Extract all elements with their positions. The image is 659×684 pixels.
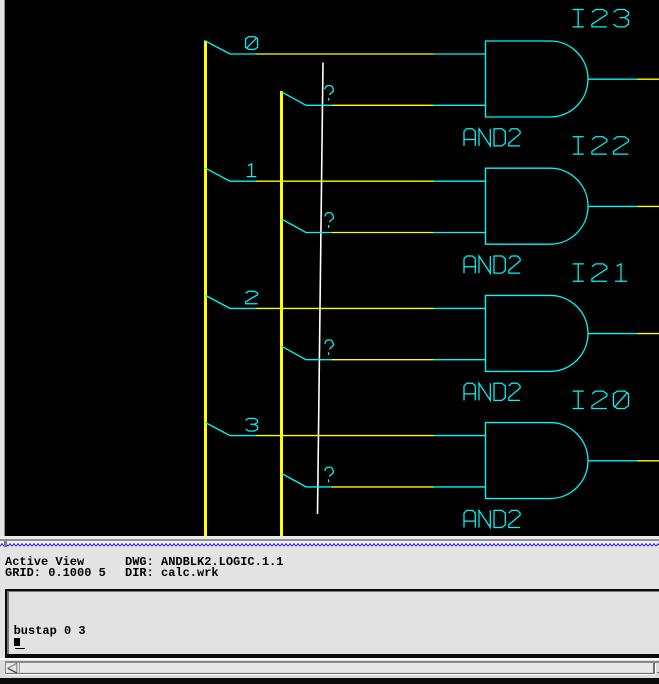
bottom black strip [0,678,659,684]
value label AND2 of I22 [464,256,520,273]
tap label ? row 3 [325,340,334,355]
wire net ? to I21 pin 2 [332,359,486,361]
scrollbar arrow/trough separator [19,663,20,674]
wire net ? to I22 pin 2 [332,232,486,234]
wire net ? to I20 pin 2 [332,486,486,488]
wire output of I20 [588,460,659,462]
bustap ? (bus BB row 3) [282,346,332,360]
bustap 3 (bus BA to net 3) [206,423,257,436]
tap label ? row 2 [325,213,334,228]
console block cursor [14,638,20,646]
value label AND2 of I20 [464,510,520,527]
tap label 0 [246,37,258,50]
scrollbar trough stub right of gap [657,672,659,674]
status text: GRID [5,567,106,579]
bustap 2 (bus BA to net 2) [206,295,257,308]
tap label 1 [247,164,257,177]
instance label I23 [573,10,629,27]
wire net 0 to I23 pin 1 [256,53,486,55]
schematic viewport (black canvas) [0,0,659,536]
bus BA [204,41,207,537]
status text: DIR [125,567,219,579]
bustap ? (bus BB row 1) [282,92,332,106]
status area [0,547,659,587]
wire net 3 to I20 pin 1 [256,435,486,437]
tap label 3 [246,418,258,431]
wire output of I21 [588,333,659,335]
tap label 2 [246,291,258,304]
wire net 2 to I21 pin 1 [256,307,486,309]
tap label ? row 4 [325,467,334,482]
console window frame [0,587,659,660]
value label AND2 of I23 [464,129,520,146]
bustap 1 (bus BA to net 1) [206,168,257,181]
bustap ? (bus BB row 4) [282,473,332,487]
AND2 gate I23 [486,41,588,117]
instance label I22 [573,137,629,154]
instance label I21 [573,264,627,281]
instance label I20 [573,391,629,408]
bus BB [280,91,283,537]
ghost wire (rubber-band vertical line) [318,63,324,515]
scrollbar left arrow [5,661,23,677]
schematic window left frame [0,0,4,536]
wire output of I23 [588,78,659,80]
console underscore cursor [15,648,25,650]
console command text [14,625,86,637]
wire net ? to I23 pin 2 [332,104,486,106]
AND2 gate I20 [486,423,589,499]
scrollbar trough / slider [6,663,654,673]
value label AND2 of I21 [464,383,520,400]
tap label ? row 1 [325,86,334,101]
bustap 0 (bus BA to net 0) [206,41,257,54]
wire output of I22 [588,205,659,207]
bustap ? (bus BB row 2) [282,219,332,233]
separator between schematic and status area [0,536,659,539]
status text: Active View [5,556,84,568]
blue zigzag separator line [0,543,659,547]
separator resize grip [4,541,7,547]
status text: DWG [125,556,283,568]
horizontal scrollbar row [0,658,659,679]
AND2 gate I21 [486,295,589,371]
AND2 gate I22 [486,168,589,244]
wire net 1 to I22 pin 1 [256,180,486,182]
